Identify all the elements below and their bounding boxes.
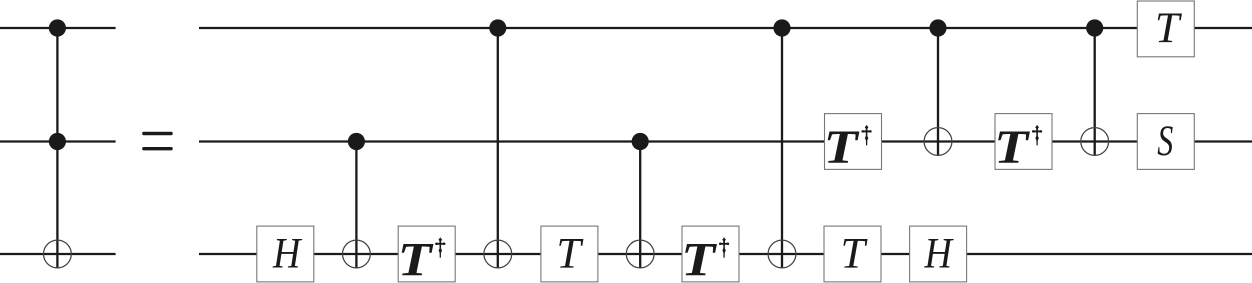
wire q1 left segment	[0, 140, 116, 142]
CNOT 6 control dot on q0	[1086, 19, 1103, 36]
Toffoli control dot on q1	[49, 133, 66, 150]
gate box T-dagger (first, on q1)	[824, 114, 882, 174]
svg-text:T: T	[841, 230, 869, 277]
CNOT 2 control dot on q0	[489, 19, 506, 36]
wire q1 right segment	[199, 140, 1252, 142]
gate box T-dagger (first, on q2)	[398, 226, 456, 283]
svg-text:T: T	[556, 230, 584, 277]
CNOT 3 control dot on q1	[632, 133, 649, 150]
svg-text:H: H	[924, 230, 954, 277]
Toffoli target oplus on q2	[44, 240, 72, 268]
Toffoli gate vertical wire	[56, 28, 58, 268]
gate box T-dagger (second, on q1)	[994, 114, 1052, 174]
gate box T-dagger (second, on q2)	[681, 226, 739, 283]
CNOT 5 vertical wire (q0 to q1)	[937, 28, 939, 155]
svg-text:T: T	[824, 121, 860, 174]
CNOT 4 control dot on q0	[773, 19, 790, 36]
Toffoli control dot on q0	[49, 19, 66, 36]
CNOT 4 vertical wire (q0 to q2)	[781, 28, 783, 268]
CNOT 2 target oplus on q2	[484, 240, 512, 268]
svg-text:T: T	[994, 121, 1030, 174]
wire q0 right segment	[199, 27, 1252, 29]
CNOT 5 control dot on q0	[929, 19, 946, 36]
svg-text:T: T	[681, 233, 717, 283]
CNOT 1 target oplus on q2	[343, 240, 371, 268]
CNOT 2 vertical wire (q0 to q2)	[497, 28, 499, 268]
wire q2 left segment	[0, 253, 116, 255]
wire q2 right segment	[199, 253, 1252, 255]
svg-text:H: H	[272, 230, 302, 277]
CNOT 4 target oplus on q2	[768, 240, 796, 268]
gate box H (second, on q2)	[910, 226, 967, 282]
CNOT 6 target oplus on q1	[1081, 128, 1109, 156]
CNOT 5 target oplus on q1	[924, 128, 952, 156]
CNOT 6 vertical wire (q0 to q1)	[1094, 28, 1096, 155]
gate box T (on q0)	[1137, 1, 1194, 57]
gate box T (first, on q2)	[541, 226, 598, 282]
CNOT 3 target oplus on q2	[626, 240, 654, 268]
CNOT 1 control dot on q1	[348, 133, 365, 150]
svg-text:S: S	[1157, 118, 1173, 165]
svg-text:T: T	[1155, 5, 1183, 52]
gate box S (on q1)	[1137, 114, 1194, 170]
gate box T (second, on q2)	[824, 226, 881, 282]
equals sign	[142, 132, 173, 151]
CNOT 3 vertical wire (q1 to q2)	[639, 142, 641, 268]
gate box H (first, on q2)	[257, 226, 314, 282]
CNOT 1 vertical wire (q1 to q2)	[355, 142, 357, 268]
svg-text:T: T	[398, 233, 434, 283]
wire q0 left segment	[0, 27, 116, 29]
